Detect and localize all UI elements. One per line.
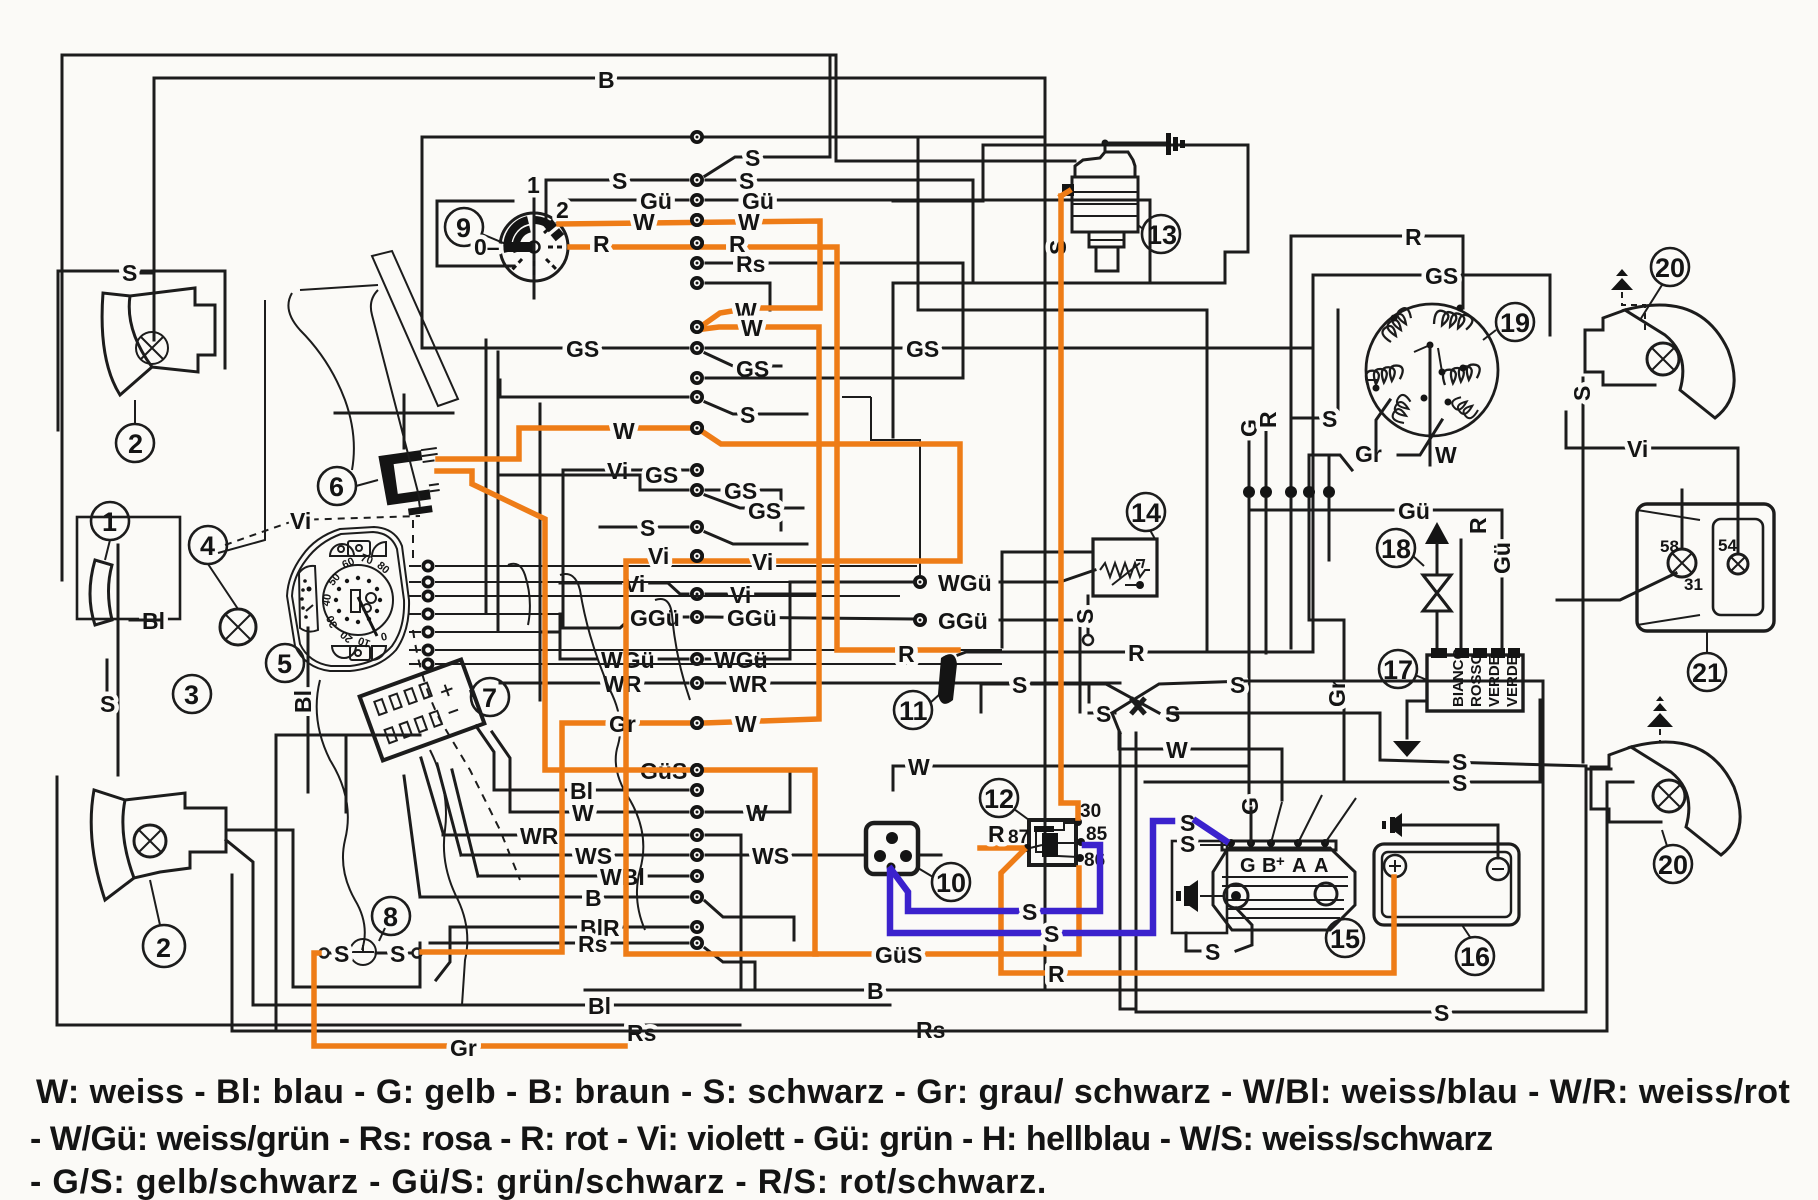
svg-text:S: S (1096, 701, 1111, 727)
svg-text:S: S (1569, 386, 1595, 401)
svg-text:7: 7 (482, 683, 497, 713)
svg-text:R: R (729, 231, 746, 257)
svg-text:W: W (633, 209, 655, 235)
svg-text:W: W (908, 754, 930, 780)
svg-text:16: 16 (1460, 942, 1490, 972)
svg-text:VERDE: VERDE (1486, 655, 1503, 707)
svg-text:S: S (1180, 831, 1195, 857)
svg-text:S: S (122, 260, 137, 286)
svg-text:Vi: Vi (1627, 436, 1648, 462)
svg-text:Gü: Gü (1489, 542, 1515, 574)
svg-text:0–: 0– (474, 234, 500, 260)
svg-text:2: 2 (128, 429, 143, 459)
svg-text:- W/Gü: weiss/grün - Rs: rosa: - W/Gü: weiss/grün - Rs: rosa - R: rot -… (30, 1120, 1493, 1158)
svg-text:GS: GS (748, 498, 781, 524)
svg-text:S: S (1072, 609, 1098, 624)
svg-text:58: 58 (1660, 537, 1679, 556)
svg-text:WS: WS (752, 843, 789, 869)
svg-text:31: 31 (1684, 575, 1703, 594)
svg-text:1: 1 (102, 507, 117, 537)
svg-text:R: R (988, 821, 1005, 847)
svg-text:Gü: Gü (1398, 498, 1430, 524)
svg-text:R: R (593, 231, 610, 257)
svg-text:B: B (867, 978, 884, 1004)
svg-text:WR: WR (729, 671, 768, 697)
svg-text:18: 18 (1381, 534, 1411, 564)
svg-text:W: W (1435, 442, 1457, 468)
svg-text:GGü: GGü (938, 608, 988, 634)
svg-text:2: 2 (156, 933, 171, 963)
svg-text:S: S (390, 941, 405, 967)
svg-text:Rs: Rs (578, 931, 607, 957)
svg-text:S: S (1205, 939, 1220, 965)
svg-text:S: S (1045, 240, 1071, 255)
svg-text:17: 17 (1383, 655, 1413, 685)
svg-text:W: W (1166, 737, 1188, 763)
svg-text:S: S (1230, 672, 1245, 698)
svg-text:S: S (1044, 921, 1059, 947)
svg-text:S: S (334, 941, 349, 967)
svg-text:21: 21 (1692, 658, 1722, 688)
svg-text:B: B (598, 67, 615, 93)
svg-text:12: 12 (984, 784, 1014, 814)
svg-text:2: 2 (556, 197, 569, 223)
svg-text:Vi: Vi (290, 508, 311, 534)
svg-text:13: 13 (1147, 220, 1177, 250)
svg-text:Bl: Bl (290, 690, 316, 713)
svg-text:GS: GS (1425, 263, 1458, 289)
svg-text:87: 87 (1008, 827, 1029, 848)
svg-text:Gr: Gr (1355, 441, 1382, 467)
svg-text:GS: GS (645, 462, 678, 488)
svg-text:Vi: Vi (648, 543, 669, 569)
svg-text:6: 6 (329, 472, 344, 502)
svg-text:5: 5 (277, 649, 292, 679)
svg-text:WGü: WGü (938, 570, 992, 596)
svg-text:BIANCO: BIANCO (1450, 648, 1467, 707)
svg-text:R: R (1405, 224, 1422, 250)
svg-text:G: G (1240, 855, 1256, 877)
svg-text:19: 19 (1500, 308, 1530, 338)
svg-text:GüS: GüS (875, 942, 922, 968)
svg-text:B: B (585, 885, 602, 911)
svg-text:S: S (1012, 672, 1027, 698)
svg-text:S: S (1322, 406, 1337, 432)
svg-text:30: 30 (1080, 801, 1101, 822)
svg-text:Gr: Gr (1324, 680, 1350, 707)
svg-text:- G/S: gelb/schwarz - Gü/S: gr: - G/S: gelb/schwarz - Gü/S: grün/schwarz… (30, 1163, 1047, 1200)
svg-text:ROSSO: ROSSO (1468, 652, 1485, 707)
svg-text:B: B (1262, 855, 1276, 877)
svg-text:S: S (1022, 899, 1037, 925)
svg-text:R: R (1465, 517, 1491, 534)
svg-text:S: S (1452, 770, 1467, 796)
svg-text:Rs: Rs (627, 1020, 656, 1046)
svg-text:WR: WR (520, 823, 559, 849)
svg-text:VERDE: VERDE (1504, 655, 1521, 707)
svg-text:20: 20 (1658, 850, 1688, 880)
svg-text:S: S (612, 168, 627, 194)
svg-text:Vi: Vi (607, 458, 628, 484)
svg-text:S: S (1434, 1000, 1449, 1026)
svg-text:40: 40 (320, 593, 334, 607)
svg-text:+: + (1276, 853, 1285, 870)
svg-text:15: 15 (1330, 924, 1360, 954)
svg-text:R: R (1048, 961, 1065, 987)
svg-text:54: 54 (1718, 536, 1737, 555)
svg-text:GS: GS (566, 336, 599, 362)
svg-text:10: 10 (936, 868, 966, 898)
svg-text:11: 11 (899, 696, 928, 726)
svg-text:R: R (898, 641, 915, 667)
svg-text:S: S (640, 515, 655, 541)
svg-text:4: 4 (200, 531, 215, 561)
svg-text:Bl: Bl (588, 993, 611, 1019)
svg-text:W: weiss - Bl: blau - G: gelb: W: weiss - Bl: blau - G: gelb - B: braun… (36, 1073, 1790, 1111)
svg-text:3: 3 (184, 680, 199, 710)
svg-text:9: 9 (456, 213, 471, 243)
svg-text:S: S (100, 691, 115, 717)
svg-text:Vi: Vi (752, 549, 773, 575)
svg-text:WR: WR (603, 671, 642, 697)
svg-text:14: 14 (1131, 498, 1161, 528)
svg-text:Gr: Gr (450, 1035, 477, 1061)
svg-text:W: W (735, 711, 757, 737)
svg-text:Gr: Gr (609, 711, 636, 737)
svg-text:1: 1 (527, 172, 540, 198)
svg-text:S: S (740, 402, 755, 428)
svg-text:W: W (572, 800, 594, 826)
svg-text:R: R (1255, 411, 1281, 428)
svg-text:GGü: GGü (727, 605, 777, 631)
svg-text:W: W (741, 315, 763, 341)
svg-text:20: 20 (1655, 253, 1685, 283)
svg-text:8: 8 (383, 902, 398, 932)
svg-text:W: W (613, 418, 635, 444)
svg-text:A: A (1314, 855, 1328, 877)
svg-text:A: A (1292, 855, 1306, 877)
svg-text:R: R (1128, 640, 1145, 666)
svg-text:GS: GS (906, 336, 939, 362)
